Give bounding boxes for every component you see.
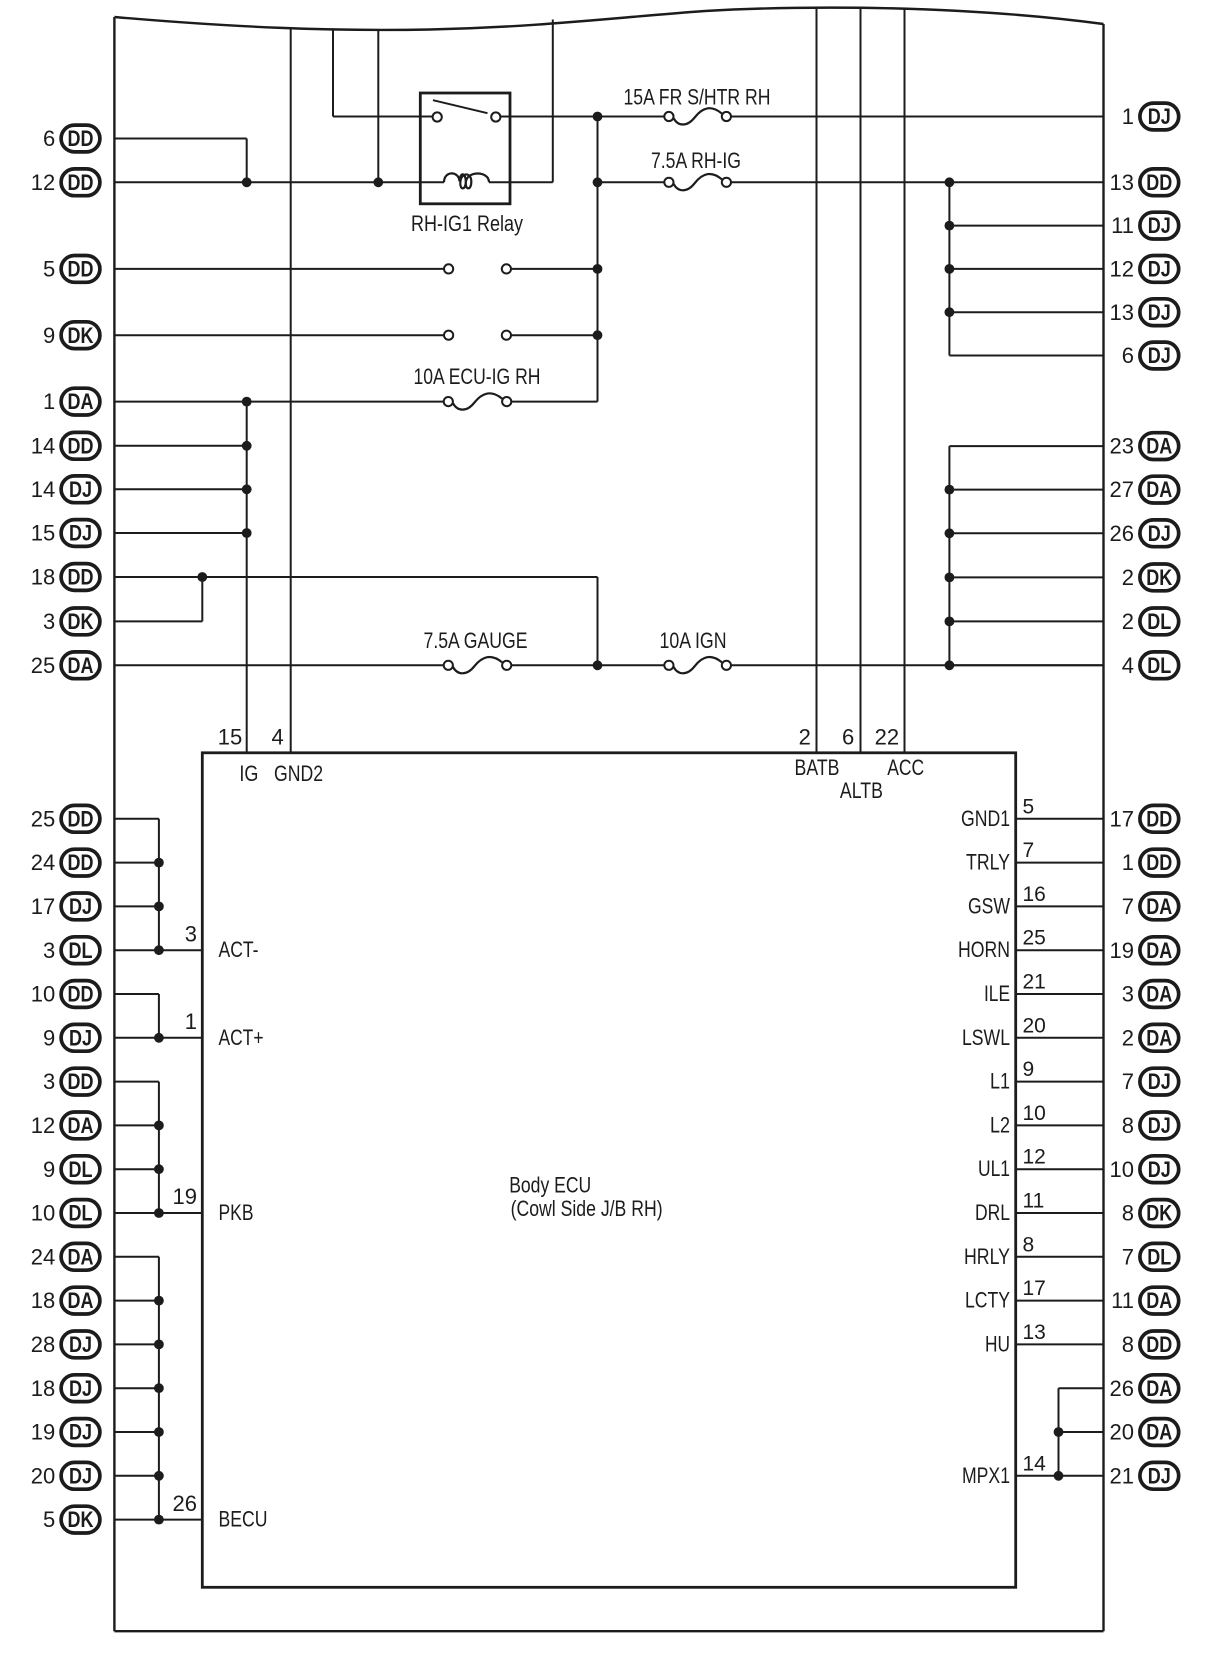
connector 26 DJ: [1110, 520, 1179, 547]
junction 15DJ / IG vertical: [242, 528, 252, 538]
svg-text:Body ECU: Body ECU: [509, 1173, 591, 1198]
wire lower-left bus ACT+: [158, 994, 160, 1038]
wire RH-IG row mid: [598, 181, 665, 183]
svg-text:10: 10: [1110, 1157, 1134, 1182]
connector 24 DA: [31, 1243, 100, 1270]
svg-text:23: 23: [1110, 434, 1134, 459]
connector 10 DL: [31, 1200, 100, 1227]
junction 2DL / right bus: [945, 617, 955, 627]
svg-text:6: 6: [43, 126, 55, 151]
connector 12 DJ: [1110, 256, 1179, 283]
wire ECU-IG vertical: [597, 117, 599, 402]
wire 5DD row left: [114, 268, 444, 270]
contact 5DD right: [502, 264, 511, 273]
svg-text:13: 13: [1023, 1321, 1046, 1344]
connector 14 DJ: [31, 476, 100, 503]
connector 1 DJ: [1122, 103, 1179, 130]
wire 18DD row: [114, 576, 597, 578]
wire 24DD row: [114, 862, 158, 864]
svg-text:PKB: PKB: [219, 1200, 254, 1225]
junction 18DD drop / gauge row: [593, 660, 603, 670]
svg-text:5: 5: [1023, 795, 1035, 818]
junction MPX bus / 20DA row: [1054, 1427, 1064, 1437]
junction 11DJ / right bus: [945, 221, 955, 231]
connector 19 DA: [1110, 937, 1179, 964]
connector 13 DJ: [1110, 299, 1179, 326]
junction 13DJ / right bus: [945, 307, 955, 317]
svg-text:DJ: DJ: [1148, 300, 1171, 325]
svg-text:11: 11: [1111, 1288, 1134, 1313]
svg-text:10A IGN: 10A IGN: [660, 628, 727, 653]
wire GND2 feed vertical: [290, 29, 292, 753]
connector 25 DD: [31, 805, 100, 832]
wire 12DD coil row: [114, 181, 444, 183]
svg-text:LCTY: LCTY: [965, 1288, 1010, 1313]
svg-text:DL: DL: [1147, 653, 1171, 678]
wire BATB vertical (pin 2): [816, 9, 818, 753]
junction bus / 24DD row: [154, 858, 164, 868]
svg-text:1: 1: [1122, 104, 1134, 129]
wire pin 9 L1 row: [1016, 1081, 1104, 1083]
relay switch arm: [433, 100, 488, 113]
wire pin 14 MPX1 row: [1016, 1475, 1104, 1477]
svg-text:DD: DD: [68, 433, 94, 458]
junction 18DD / 3DK branch: [197, 572, 207, 582]
svg-text:DJ: DJ: [69, 1332, 92, 1357]
wire 13DJ row: [949, 311, 1103, 313]
svg-text:DJ: DJ: [69, 477, 92, 502]
svg-text:DJ: DJ: [69, 1420, 92, 1445]
fuse 10A ECU-IG RH: [414, 364, 541, 409]
svg-text:LSWL: LSWL: [962, 1025, 1010, 1050]
junction bus / 20DJ row: [154, 1471, 164, 1481]
svg-text:11: 11: [1111, 213, 1134, 238]
svg-text:DD: DD: [68, 1069, 94, 1094]
svg-text:3: 3: [185, 921, 197, 946]
svg-text:7: 7: [1023, 839, 1035, 862]
svg-text:DJ: DJ: [1148, 1113, 1171, 1138]
wire pin 13 HU row: [1016, 1343, 1104, 1345]
svg-text:L1: L1: [990, 1069, 1010, 1094]
wire 20DA row: [1059, 1431, 1104, 1433]
wire 15A row mid: [598, 116, 665, 118]
wire 10DD row: [114, 993, 158, 995]
svg-text:HRLY: HRLY: [964, 1244, 1010, 1269]
connector 1 DA: [43, 388, 100, 415]
connector 8 DK: [1122, 1200, 1179, 1227]
junction MPX bus / MPX1 row: [1054, 1471, 1064, 1481]
connector 10 DJ: [1110, 1156, 1179, 1183]
svg-text:GSW: GSW: [968, 893, 1010, 918]
svg-text:8: 8: [1122, 1332, 1134, 1357]
wire 17DJ row: [114, 905, 158, 907]
connector 11 DA: [1111, 1287, 1179, 1314]
wire 6DD drop: [246, 139, 248, 183]
wire 4DL row: [949, 664, 1103, 666]
svg-text:ACT-: ACT-: [219, 937, 259, 962]
svg-text:24: 24: [31, 1244, 55, 1269]
svg-text:DA: DA: [1146, 1288, 1172, 1313]
svg-text:DL: DL: [1147, 1244, 1171, 1269]
svg-text:8: 8: [1023, 1233, 1035, 1256]
junction bus / 18DJ row: [154, 1383, 164, 1393]
svg-text:DA: DA: [68, 1244, 94, 1269]
connector 8 DD: [1122, 1331, 1179, 1358]
connector 5 DD: [43, 256, 100, 283]
contact 5DD left: [444, 264, 453, 273]
wire coil return vertical: [552, 20, 554, 183]
connector 17 DD: [1110, 805, 1179, 832]
svg-text:GND2: GND2: [274, 761, 323, 786]
wire 27DA row: [949, 489, 1103, 491]
relay contact left: [433, 112, 442, 121]
junction ign row / right bus: [945, 660, 955, 670]
svg-text:12: 12: [1023, 1146, 1046, 1169]
fuse 7.5A RH-IG: [651, 148, 741, 191]
wire relay switch feed vertical: [332, 30, 334, 117]
wire 9DK row right: [511, 334, 598, 336]
connector 6 DD: [43, 125, 100, 152]
relay RH-IG1 box: [420, 93, 510, 204]
svg-text:DA: DA: [1146, 1025, 1172, 1050]
svg-text:2: 2: [1122, 565, 1134, 590]
svg-text:14: 14: [31, 433, 55, 458]
svg-text:5: 5: [43, 257, 55, 282]
svg-text:RH-IG1 Relay: RH-IG1 Relay: [411, 211, 523, 236]
connector 4 DL: [1122, 652, 1179, 679]
wire 9DL row: [114, 1168, 158, 1170]
svg-text:DJ: DJ: [1148, 257, 1171, 282]
wire 3DL row to pin 3: [114, 949, 202, 951]
svg-text:ACC: ACC: [887, 755, 924, 780]
wire pin 17 LCTY row: [1016, 1300, 1104, 1302]
connector 18 DA: [31, 1287, 100, 1314]
relay contact right: [491, 112, 500, 121]
svg-text:18: 18: [31, 565, 55, 590]
connector 3 DA: [1122, 981, 1179, 1008]
wire lower-left bus ACT-: [158, 819, 160, 950]
junction bus / 12DA row: [154, 1121, 164, 1131]
connector 10 DD: [31, 981, 100, 1008]
svg-text:5: 5: [43, 1507, 55, 1532]
wire 3DK riser: [201, 577, 203, 621]
wire 1DJ row right: [731, 116, 1104, 118]
wire lower-left bus BECU: [158, 1257, 160, 1520]
svg-text:19: 19: [31, 1420, 55, 1445]
svg-text:10A ECU-IG RH: 10A ECU-IG RH: [414, 364, 541, 389]
wire ACC vertical (pin 22): [904, 10, 906, 753]
svg-text:15: 15: [31, 521, 55, 546]
svg-text:DK: DK: [68, 1507, 94, 1532]
connector 25 DA: [31, 652, 100, 679]
wire relay switch row in: [333, 116, 433, 118]
svg-text:7.5A RH-IG: 7.5A RH-IG: [651, 148, 741, 173]
svg-text:7.5A GAUGE: 7.5A GAUGE: [424, 628, 528, 653]
wire 23DA row: [949, 445, 1103, 447]
svg-text:10: 10: [31, 982, 55, 1007]
svg-text:4: 4: [272, 725, 284, 750]
wire 3DK row: [114, 620, 202, 622]
junction ECU-IG / RH-IG row: [593, 177, 603, 187]
wire ALTB vertical (pin 6): [860, 9, 862, 753]
connector 2 DL: [1122, 608, 1179, 635]
svg-text:19: 19: [1110, 938, 1134, 963]
connector 17 DJ: [31, 893, 100, 920]
connector 20 DA: [1110, 1419, 1179, 1446]
wire 2DL row: [949, 620, 1103, 622]
junction bus / 9DL row: [154, 1164, 164, 1174]
svg-text:12: 12: [1110, 257, 1134, 282]
svg-text:6: 6: [842, 724, 854, 749]
connector 9 DK: [43, 322, 100, 349]
connector 24 DD: [31, 849, 100, 876]
svg-text:16: 16: [1023, 883, 1046, 906]
svg-text:17: 17: [31, 894, 55, 919]
wire pin 5 GND1 row: [1016, 818, 1104, 820]
svg-text:17: 17: [1023, 1277, 1046, 1300]
wire bottom boundary: [114, 1630, 1103, 1632]
wire 5DK row to pin 26: [114, 1519, 202, 1521]
svg-text:7: 7: [1122, 894, 1134, 919]
connector 23 DA: [1110, 433, 1179, 460]
svg-text:1: 1: [43, 389, 55, 414]
fuse 10A IGN: [660, 628, 732, 674]
svg-text:DL: DL: [69, 938, 93, 963]
svg-text:DA: DA: [1146, 894, 1172, 919]
svg-text:DJ: DJ: [1148, 1463, 1171, 1488]
junction bus / 28DJ row: [154, 1340, 164, 1350]
svg-text:DA: DA: [68, 389, 94, 414]
svg-text:1: 1: [1122, 850, 1134, 875]
svg-text:12: 12: [31, 1113, 55, 1138]
wire left boundary: [113, 17, 115, 1631]
wire 19DJ row: [114, 1431, 158, 1433]
wire 9DK row left: [114, 334, 444, 336]
svg-text:DD: DD: [68, 170, 94, 195]
svg-text:15A FR S/HTR RH: 15A FR S/HTR RH: [624, 85, 771, 110]
wire gauge row mid: [511, 664, 664, 666]
svg-text:DD: DD: [1146, 170, 1172, 195]
wire 12DJ row: [949, 268, 1103, 270]
svg-text:20: 20: [1110, 1420, 1134, 1445]
svg-text:DA: DA: [68, 653, 94, 678]
connector 26 DA: [1110, 1375, 1179, 1402]
junction bus / 17DJ row: [154, 902, 164, 912]
connector 9 DL: [43, 1156, 100, 1183]
wire relay coil feed vertical: [377, 30, 379, 182]
svg-text:DA: DA: [1146, 1376, 1172, 1401]
wire lower-left bus PKB: [158, 1082, 160, 1213]
connector 7 DA: [1122, 893, 1179, 920]
svg-text:3: 3: [43, 938, 55, 963]
svg-text:25: 25: [31, 653, 55, 678]
svg-text:17: 17: [1110, 806, 1134, 831]
wire 20DJ row: [114, 1475, 158, 1477]
svg-text:DK: DK: [68, 609, 94, 634]
wire 13DD row right: [731, 181, 1104, 183]
svg-text:DJ: DJ: [69, 894, 92, 919]
connector 3 DK: [43, 608, 100, 635]
svg-text:MPX1: MPX1: [962, 1463, 1010, 1488]
wire pin 20 LSWL row: [1016, 1037, 1104, 1039]
junction bus / 19DJ row: [154, 1427, 164, 1437]
wire pin 8 HRLY row: [1016, 1256, 1104, 1258]
svg-text:25: 25: [1023, 927, 1046, 950]
svg-text:DJ: DJ: [69, 1376, 92, 1401]
svg-text:DD: DD: [1146, 1332, 1172, 1357]
svg-text:3: 3: [43, 1069, 55, 1094]
svg-text:BATB: BATB: [795, 755, 840, 780]
connector 8 DJ: [1122, 1112, 1179, 1139]
wire 11DJ row: [949, 225, 1103, 227]
wire 6DJ row: [949, 355, 1103, 357]
junction 26DJ / right bus: [945, 528, 955, 538]
wire 5DD row right: [511, 268, 598, 270]
svg-text:11: 11: [1023, 1190, 1045, 1213]
svg-text:12: 12: [31, 170, 55, 195]
svg-text:DJ: DJ: [1148, 1157, 1171, 1182]
svg-text:9: 9: [1023, 1058, 1035, 1081]
svg-text:HU: HU: [985, 1331, 1010, 1356]
wire pin 21 ILE row: [1016, 993, 1104, 995]
svg-text:14: 14: [1023, 1452, 1047, 1475]
svg-text:22: 22: [875, 724, 899, 749]
wire pin 25 HORN row: [1016, 949, 1104, 951]
svg-text:26: 26: [1110, 521, 1134, 546]
svg-text:4: 4: [1122, 653, 1134, 678]
wire pin 7 TRLY row: [1016, 862, 1104, 864]
svg-text:26: 26: [173, 1491, 197, 1516]
svg-text:13: 13: [1110, 300, 1134, 325]
connector 2 DK: [1122, 564, 1179, 591]
svg-text:ALTB: ALTB: [840, 778, 883, 803]
junction bus / pin 26 row: [154, 1515, 164, 1525]
connector 3 DD: [43, 1068, 100, 1095]
svg-text:13: 13: [1110, 170, 1134, 195]
wire 26DJ row: [949, 532, 1103, 534]
svg-text:DJ: DJ: [1148, 343, 1171, 368]
wire pin 16 GSW row: [1016, 905, 1104, 907]
connector 11 DJ: [1111, 212, 1179, 239]
svg-text:20: 20: [31, 1463, 55, 1488]
svg-text:DJ: DJ: [69, 1025, 92, 1050]
svg-text:HORN: HORN: [958, 937, 1010, 962]
connector 2 DA: [1122, 1024, 1179, 1051]
svg-text:ILE: ILE: [984, 981, 1010, 1006]
connector 5 DK: [43, 1506, 100, 1533]
junction 12DJ / right bus: [945, 264, 955, 274]
wire pin 12 UL1 row: [1016, 1168, 1104, 1170]
svg-text:DD: DD: [68, 565, 94, 590]
svg-text:DA: DA: [1146, 434, 1172, 459]
svg-text:26: 26: [1110, 1376, 1134, 1401]
wire 3DD row: [114, 1081, 158, 1083]
wire right bus lower: [948, 446, 950, 665]
svg-text:DK: DK: [68, 323, 94, 348]
wire 18DA row: [114, 1300, 158, 1302]
wire 25DA gauge row: [114, 664, 444, 666]
connector 7 DJ: [1122, 1068, 1179, 1095]
fuse 7.5A GAUGE: [424, 628, 528, 674]
svg-text:6: 6: [1122, 343, 1134, 368]
wire MPX branch bus: [1058, 1388, 1060, 1476]
svg-text:2: 2: [1122, 1025, 1134, 1050]
junction 9DK / ECU-IG vertical: [593, 330, 603, 340]
junction 13DD row / right bus: [945, 177, 955, 187]
svg-text:DD: DD: [1146, 806, 1172, 831]
svg-text:DD: DD: [68, 806, 94, 831]
connector 28 DJ: [31, 1331, 100, 1358]
svg-text:DD: DD: [68, 850, 94, 875]
svg-text:DD: DD: [68, 982, 94, 1007]
svg-text:21: 21: [1023, 971, 1046, 994]
wire IG pin vertical: [246, 402, 248, 753]
connector 18 DD: [31, 564, 100, 591]
svg-text:DA: DA: [68, 1288, 94, 1313]
wire pin 10 L2 row: [1016, 1124, 1104, 1126]
svg-text:DL: DL: [69, 1201, 93, 1226]
connector 9 DJ: [43, 1024, 100, 1051]
svg-text:8: 8: [1122, 1201, 1134, 1226]
svg-text:7: 7: [1122, 1244, 1134, 1269]
svg-text:DD: DD: [1146, 850, 1172, 875]
connector 3 DL: [43, 937, 100, 964]
svg-text:GND1: GND1: [961, 806, 1010, 831]
wire 26DA row: [1059, 1387, 1104, 1389]
junction bus / pin 19 row: [154, 1208, 164, 1218]
svg-text:DA: DA: [1146, 1420, 1172, 1445]
connector 7 DL: [1122, 1243, 1179, 1270]
wire 15DJ row: [114, 532, 246, 534]
svg-text:10: 10: [1023, 1102, 1046, 1125]
wire pin 11 DRL row: [1016, 1212, 1104, 1214]
svg-text:3: 3: [1122, 982, 1134, 1007]
wire right boundary: [1102, 24, 1104, 1631]
svg-text:DD: DD: [68, 257, 94, 282]
junction bus / pin 1 row: [154, 1033, 164, 1043]
svg-text:24: 24: [31, 850, 55, 875]
svg-text:DJ: DJ: [1148, 104, 1171, 129]
svg-text:3: 3: [43, 609, 55, 634]
connector 19 DJ: [31, 1419, 100, 1446]
wire 14DD row: [114, 445, 246, 447]
wire ign row right: [731, 664, 1104, 666]
svg-text:18: 18: [31, 1288, 55, 1313]
svg-text:21: 21: [1110, 1463, 1134, 1488]
svg-text:DA: DA: [1146, 477, 1172, 502]
svg-text:9: 9: [43, 323, 55, 348]
junction 14DJ / IG vertical: [242, 484, 252, 494]
svg-text:DRL: DRL: [975, 1200, 1010, 1225]
junction 1DA / IG vertical: [242, 397, 252, 407]
wire 24DA row: [114, 1256, 158, 1258]
svg-text:9: 9: [43, 1025, 55, 1050]
svg-text:DD: DD: [68, 126, 94, 151]
fuse 15A FR S/HTR RH: [624, 85, 771, 125]
svg-text:DL: DL: [1147, 609, 1171, 634]
junction 27DA / right bus: [945, 485, 955, 495]
svg-text:1: 1: [185, 1009, 197, 1034]
wire coil to return vertical: [489, 181, 553, 183]
relay coil: [444, 173, 489, 188]
svg-text:DJ: DJ: [69, 521, 92, 546]
contact 9DK right: [502, 331, 511, 340]
connector 15 DJ: [31, 520, 100, 547]
junction bus / pin 3 row: [154, 945, 164, 955]
contact 9DK left: [444, 331, 453, 340]
junction 5DD / ECU-IG vertical: [593, 264, 603, 274]
wire 1DA row right: [511, 401, 597, 403]
